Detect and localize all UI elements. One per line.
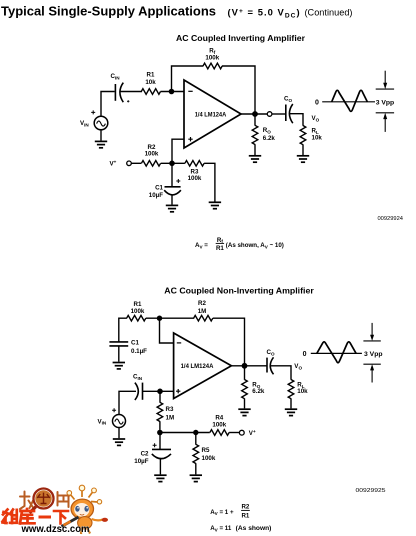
resistor R3 1M [157, 391, 174, 432]
svg-text:0.1µF: 0.1µF [131, 348, 147, 355]
gain formula circuit 1 [195, 237, 284, 252]
wire R1 to op-amp inverting input [161, 91, 185, 93]
svg-text:10µF: 10µF [149, 192, 163, 199]
feedback wire up and across [172, 66, 256, 114]
output waveform (circuit 1) [315, 71, 394, 132]
svg-text:AV =: AV = [195, 242, 208, 249]
ground under RO (circuit 2) [238, 409, 250, 415]
svg-text:R1: R1 [241, 512, 249, 519]
svg-text:100k: 100k [202, 455, 216, 462]
resistor R5 100k [193, 433, 216, 475]
logo red text yi (one) [39, 516, 52, 519]
wire VIN to CIN [101, 92, 115, 117]
svg-text:6.2k: 6.2k [263, 135, 276, 142]
svg-text:AV = 11: AV = 11 [210, 525, 232, 532]
logo red text xia (down) [54, 511, 68, 524]
svg-text:1/4 LM124A: 1/4 LM124A [195, 112, 227, 119]
page heading: Typical Single-Supply Applications [1, 3, 353, 19]
wire R2 to R3 [161, 162, 185, 164]
ground under R3 [209, 202, 221, 208]
svg-text:100k: 100k [212, 421, 226, 428]
resistor R1 100k (circuit 2) [127, 301, 146, 321]
capacitor CO (circuit 2) [267, 349, 275, 374]
op-amp U2 1/4 LM124A [174, 333, 232, 399]
svg-text:(As shown, AV ~ 10): (As shown, AV ~ 10) [226, 242, 284, 249]
ground under R5 [190, 475, 202, 481]
ground under RO [249, 156, 261, 162]
ground under C1 [166, 205, 178, 211]
wire CO to RL [290, 114, 303, 126]
wire R1 to R2 [146, 317, 194, 319]
node F (bias rail left) [157, 430, 163, 436]
ground under C2 [154, 475, 166, 481]
logo char pian (chip) orange [58, 492, 70, 507]
svg-text:1M: 1M [198, 308, 207, 315]
resistor RO 6.2k [252, 114, 275, 155]
resistor R4 100k [210, 414, 229, 435]
op-amp U1 1/4 LM124A [184, 80, 241, 148]
source VIN (circuit 1) [80, 110, 108, 129]
resistor RO 6.2k (circuit 2) [242, 366, 265, 409]
wire C1 to ground (circuit 2) [118, 346, 120, 362]
svg-text:100k: 100k [131, 308, 145, 315]
svg-text:6.2k: 6.2k [252, 388, 265, 395]
logo mascot head [71, 499, 93, 519]
node B (bias junction) [169, 161, 175, 167]
svg-text:AC Coupled Inverting Amplifier: AC Coupled Inverting Amplifier [176, 33, 306, 43]
resistor R1 10k [141, 71, 160, 94]
capacitor CIN (circuit 1) [111, 73, 130, 102]
ground under VIN [95, 130, 107, 148]
svg-text:3 Vpp: 3 Vpp [364, 351, 383, 358]
wire C1 to ground [171, 195, 173, 205]
wire CIN to non-inverting input [143, 390, 174, 392]
ground under C1 (circuit 2) [113, 363, 125, 369]
resistor RL 10k [300, 126, 322, 155]
wire node D to inverting input [160, 318, 174, 343]
output waveform (circuit 2) [303, 323, 383, 383]
svg-text:100k: 100k [205, 55, 219, 62]
svg-text:C1: C1 [131, 339, 139, 346]
resistor R2 1M (feedback) [194, 300, 213, 321]
svg-text:(Continued): (Continued) [305, 7, 353, 17]
svg-text:C1: C1 [155, 184, 163, 191]
node E (non-inverting junction) [157, 389, 163, 395]
node A (inverting input junction) [169, 89, 175, 95]
svg-text:3 Vpp: 3 Vpp [376, 99, 395, 106]
node D (feedback junction) [157, 316, 162, 321]
terminal V+ (circuit 2) [239, 429, 256, 437]
svg-text:R1: R1 [147, 71, 155, 78]
svg-text:R5: R5 [202, 447, 210, 454]
node H (output junction circuit 2) [242, 363, 248, 369]
logo magnifier over chip char [30, 489, 54, 514]
svg-text:00929925: 00929925 [356, 488, 386, 494]
resistor RL 10k (circuit 2) [288, 380, 308, 409]
logo mascot antennae [67, 485, 102, 504]
svg-text:1/4 LM124A: 1/4 LM124A [181, 363, 214, 370]
svg-text:AC Coupled Non-Inverting Ampli: AC Coupled Non-Inverting Amplifier [164, 286, 314, 296]
wire R2 to output node [213, 318, 245, 366]
node G (R5 junction) [193, 430, 198, 435]
svg-text:1M: 1M [166, 414, 175, 421]
svg-text:R3: R3 [166, 406, 174, 413]
svg-text:10k: 10k [297, 388, 308, 395]
svg-text:(As shown): (As shown) [236, 525, 272, 532]
svg-text:0: 0 [315, 99, 319, 106]
svg-text:0: 0 [303, 351, 307, 358]
svg-text:10µF: 10µF [134, 458, 148, 465]
wire C2 to ground [159, 459, 161, 475]
wire VIN to CIN (circuit 2) [119, 391, 136, 414]
wire bias rail [160, 432, 210, 434]
wire CIN to R1 [120, 91, 142, 93]
logo red text wei (dzsc) [3, 510, 18, 524]
wire non-inverting input down to bias node [172, 139, 184, 163]
wire op-amp output [241, 113, 267, 115]
node C (output junction) [252, 111, 258, 117]
ground under VIN (circuit 2) [113, 428, 125, 446]
resistor R3 100k [185, 161, 204, 183]
wire terminal to CO [272, 113, 286, 115]
terminal output (open circle) [267, 112, 272, 117]
svg-text:R2: R2 [198, 300, 206, 307]
svg-text:R2: R2 [241, 504, 249, 511]
terminal V+ (circuit 1) [110, 160, 132, 168]
svg-text:100k: 100k [188, 175, 202, 182]
capacitor C1 10uF (circuit 1) [149, 163, 181, 199]
capacitor C2 10uF [134, 433, 171, 466]
svg-text:R1: R1 [216, 245, 224, 252]
svg-text:Typical Single-Supply Applicat: Typical Single-Supply Applications [1, 3, 216, 18]
capacitor CO (circuit 1) [284, 96, 293, 124]
svg-text:00929924: 00929924 [378, 216, 404, 222]
wire R3 to ground [204, 163, 215, 201]
svg-text:10k: 10k [145, 79, 156, 86]
svg-text:100k: 100k [145, 150, 159, 157]
capacitor CIN (circuit 2) [133, 373, 143, 400]
source VIN (circuit 2) [98, 408, 126, 427]
wire CO to RL (circuit 2) [271, 366, 291, 380]
svg-text:AV = 1 +: AV = 1 + [210, 509, 234, 516]
logo char zhao (find) orange [20, 492, 35, 510]
wire R4 to V+ terminal [229, 432, 239, 434]
ground under RL [297, 156, 309, 162]
svg-text:C2: C2 [141, 451, 149, 458]
resistor R2 100k [141, 144, 160, 166]
gain formula circuit 2 line 2 [210, 525, 271, 532]
resistor Rf 100k (feedback) [203, 47, 222, 68]
svg-text:www.dzsc.com: www.dzsc.com [21, 524, 90, 535]
wire V+ to R2 [131, 162, 141, 164]
wire op-amp 2 output [231, 365, 267, 367]
logo mascot body and arms [62, 517, 109, 534]
wire top rail (C1 up to R1) [119, 318, 127, 342]
capacitor C1 0.1uF (circuit 2) [109, 339, 147, 355]
svg-text:10k: 10k [312, 134, 323, 141]
ground under RL (circuit 2) [285, 409, 297, 415]
gain formula circuit 2 line 1 [210, 504, 250, 520]
logo red text ku (warehouse) [20, 509, 35, 524]
